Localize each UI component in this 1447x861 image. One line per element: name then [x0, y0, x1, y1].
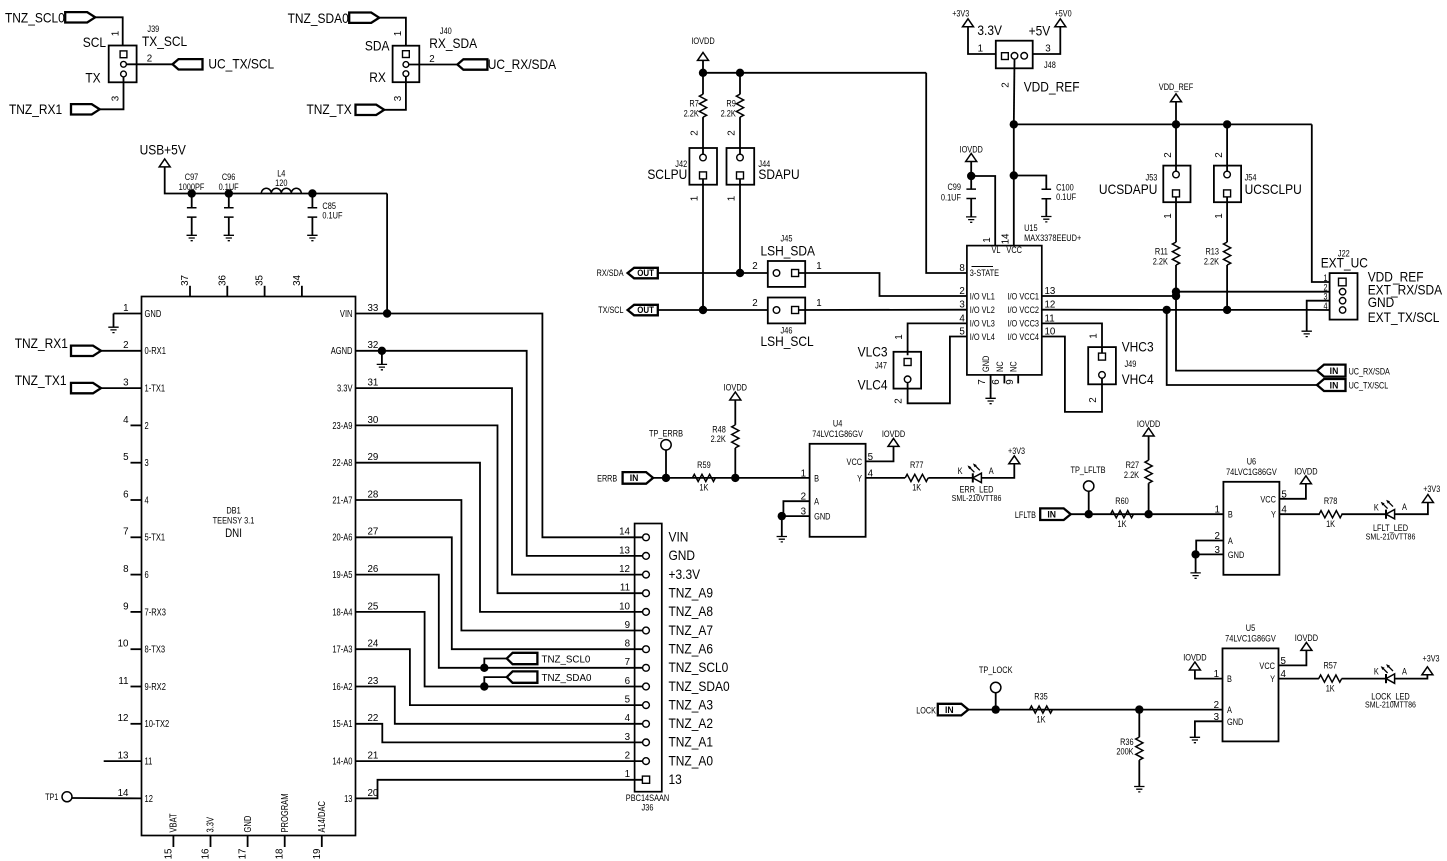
svg-text:OUT: OUT [637, 268, 655, 279]
svg-text:PBC14SAAN: PBC14SAAN [626, 793, 669, 803]
svg-text:VHC4: VHC4 [1122, 371, 1154, 387]
svg-text:R48: R48 [712, 425, 726, 435]
svg-text:120: 120 [275, 178, 288, 188]
svg-text:IN: IN [1330, 365, 1339, 376]
svg-text:GND: GND [242, 815, 253, 832]
svg-text:K: K [958, 466, 963, 476]
svg-text:TNZ_RX1: TNZ_RX1 [15, 335, 68, 351]
svg-text:B: B [1228, 510, 1233, 520]
svg-text:35: 35 [254, 275, 265, 286]
svg-text:2: 2 [752, 298, 758, 309]
svg-text:IN: IN [945, 704, 954, 715]
svg-text:TP_ERRB: TP_ERRB [649, 429, 683, 439]
svg-text:11: 11 [145, 755, 153, 766]
svg-text:TNZ_TX1: TNZ_TX1 [15, 372, 67, 388]
svg-text:0-RX1: 0-RX1 [145, 345, 166, 356]
svg-text:2: 2 [147, 53, 153, 64]
svg-text:2: 2 [752, 261, 758, 272]
svg-text:3: 3 [393, 95, 404, 101]
svg-text:1: 1 [123, 303, 129, 314]
svg-text:3.3V: 3.3V [205, 817, 216, 833]
svg-text:2: 2 [429, 54, 435, 65]
svg-text:R27: R27 [1126, 460, 1140, 470]
svg-text:TP_LOCK: TP_LOCK [979, 665, 1013, 675]
svg-text:0.1UF: 0.1UF [1056, 192, 1076, 202]
svg-text:13: 13 [619, 545, 630, 556]
svg-text:+3V3: +3V3 [1423, 654, 1440, 664]
svg-text:1K: 1K [1117, 519, 1126, 529]
svg-text:U15: U15 [1024, 223, 1038, 233]
svg-text:13: 13 [118, 750, 129, 761]
svg-text:4: 4 [625, 713, 631, 724]
svg-text:1: 1 [816, 261, 822, 272]
svg-text:1: 1 [1214, 213, 1225, 219]
svg-text:1: 1 [393, 30, 404, 36]
svg-text:GND: GND [1228, 550, 1244, 560]
svg-text:0.1UF: 0.1UF [941, 193, 961, 203]
svg-text:3-STATE: 3-STATE [970, 268, 1000, 278]
svg-text:1: 1 [625, 769, 631, 780]
svg-text:15-A1: 15-A1 [332, 718, 352, 729]
svg-text:+3V3: +3V3 [1423, 484, 1440, 494]
svg-text:16-A2: 16-A2 [332, 681, 352, 692]
svg-text:GND: GND [814, 512, 830, 522]
svg-text:UCSCLPU: UCSCLPU [1245, 181, 1302, 197]
svg-text:A: A [1228, 536, 1233, 546]
svg-text:1: 1 [726, 195, 737, 201]
svg-text:UC_RX/SDA: UC_RX/SDA [488, 56, 557, 72]
svg-text:TP1: TP1 [45, 792, 59, 802]
svg-text:RX: RX [369, 69, 386, 85]
svg-text:5: 5 [123, 452, 129, 463]
svg-text:3.3V: 3.3V [337, 382, 353, 393]
svg-text:2: 2 [1163, 152, 1174, 158]
svg-text:+5V: +5V [1029, 23, 1051, 39]
svg-text:9: 9 [123, 601, 129, 612]
svg-text:R35: R35 [1034, 692, 1048, 702]
svg-text:7: 7 [123, 526, 129, 537]
svg-text:VLC3: VLC3 [858, 344, 888, 360]
svg-text:74LVC1G86GV: 74LVC1G86GV [812, 429, 863, 439]
svg-text:TNZ_SCL0: TNZ_SCL0 [542, 654, 591, 665]
svg-text:12: 12 [619, 564, 630, 575]
svg-text:GND: GND [1227, 717, 1243, 727]
svg-text:R9: R9 [726, 99, 736, 109]
svg-text:U6: U6 [1247, 457, 1257, 467]
svg-text:5-TX1: 5-TX1 [145, 532, 166, 543]
svg-text:2: 2 [625, 750, 631, 761]
svg-text:+3V3: +3V3 [1008, 446, 1025, 456]
svg-text:36: 36 [217, 275, 228, 286]
svg-text:3.3V: 3.3V [977, 22, 1002, 38]
svg-text:7: 7 [977, 379, 988, 385]
svg-text:3: 3 [110, 95, 121, 101]
svg-text:TNZ_A9: TNZ_A9 [669, 585, 714, 601]
svg-text:R77: R77 [910, 460, 924, 470]
svg-text:K: K [1374, 503, 1379, 513]
svg-text:TNZ_A7: TNZ_A7 [669, 622, 714, 638]
svg-text:1: 1 [1163, 213, 1174, 219]
svg-text:TNZ_RX1: TNZ_RX1 [9, 101, 62, 117]
svg-text:4: 4 [123, 415, 129, 426]
svg-text:J36: J36 [642, 803, 654, 813]
svg-text:19-A5: 19-A5 [332, 569, 352, 580]
svg-text:TX_SCL: TX_SCL [142, 33, 187, 49]
svg-text:I/O VCC2: I/O VCC2 [1007, 305, 1039, 315]
svg-text:VCC: VCC [1006, 246, 1022, 256]
svg-text:VHC3: VHC3 [1122, 339, 1154, 355]
svg-text:2: 2 [689, 130, 700, 136]
svg-text:J49: J49 [1125, 360, 1137, 370]
svg-text:MAX3378EEUD+: MAX3378EEUD+ [1024, 234, 1081, 244]
svg-text:SDAPU: SDAPU [758, 166, 799, 182]
svg-text:10: 10 [118, 638, 129, 649]
svg-text:TNZ_SDA0: TNZ_SDA0 [542, 673, 592, 684]
svg-text:SML-210VTT86: SML-210VTT86 [952, 493, 1002, 503]
svg-text:RX_SDA: RX_SDA [429, 35, 477, 51]
svg-text:U5: U5 [1246, 623, 1256, 633]
svg-text:UC_TX/SCL: UC_TX/SCL [1349, 381, 1389, 391]
svg-text:9: 9 [1005, 379, 1016, 385]
svg-text:14-A0: 14-A0 [332, 755, 352, 766]
svg-text:2: 2 [123, 340, 129, 351]
svg-text:32: 32 [368, 340, 379, 351]
svg-text:SCLPU: SCLPU [647, 166, 687, 182]
svg-text:I/O VCC4: I/O VCC4 [1007, 332, 1039, 342]
svg-text:TNZ_SDA0: TNZ_SDA0 [288, 10, 349, 26]
svg-text:R60: R60 [1115, 496, 1129, 506]
svg-text:IOVDD: IOVDD [1295, 633, 1318, 643]
svg-text:1: 1 [110, 30, 121, 36]
svg-text:33: 33 [368, 303, 379, 314]
svg-text:C99: C99 [947, 182, 961, 192]
svg-text:3: 3 [123, 377, 129, 388]
svg-text:IN: IN [630, 473, 639, 484]
svg-text:OUT: OUT [637, 305, 655, 316]
svg-text:31: 31 [368, 377, 379, 388]
svg-text:AGND: AGND [331, 345, 353, 356]
svg-text:6: 6 [625, 676, 631, 687]
svg-text:34: 34 [292, 275, 303, 286]
svg-text:10: 10 [619, 601, 630, 612]
svg-text:2.2K: 2.2K [1124, 470, 1140, 480]
svg-text:I/O VL2: I/O VL2 [970, 305, 995, 315]
svg-text:GND: GND [1368, 294, 1395, 310]
svg-text:IOVDD: IOVDD [1294, 467, 1317, 477]
svg-text:LSH_SCL: LSH_SCL [761, 333, 814, 349]
svg-text:7-RX3: 7-RX3 [145, 606, 166, 617]
svg-text:K: K [1374, 667, 1379, 677]
svg-text:TNZ_A0: TNZ_A0 [669, 753, 714, 769]
svg-text:ERRB: ERRB [597, 474, 617, 484]
svg-text:TNZ_A3: TNZ_A3 [669, 697, 714, 713]
svg-text:17: 17 [237, 848, 248, 859]
svg-text:IOVDD: IOVDD [882, 429, 905, 439]
svg-text:TP_LFLTB: TP_LFLTB [1070, 465, 1106, 475]
svg-text:B: B [814, 474, 819, 484]
svg-text:2.2K: 2.2K [711, 435, 727, 445]
svg-text:R57: R57 [1323, 661, 1337, 671]
svg-text:7: 7 [625, 657, 631, 668]
svg-text:25: 25 [368, 601, 379, 612]
svg-text:3: 3 [145, 457, 149, 468]
svg-text:VL: VL [991, 246, 1000, 256]
svg-text:A: A [989, 466, 994, 476]
svg-text:18: 18 [274, 848, 285, 859]
svg-text:R11: R11 [1155, 247, 1168, 257]
svg-text:TNZ_SCL0: TNZ_SCL0 [5, 10, 65, 26]
svg-text:12: 12 [118, 713, 129, 724]
svg-text:74LVC1G86GV: 74LVC1G86GV [1226, 467, 1277, 477]
svg-text:TX: TX [85, 70, 101, 86]
svg-text:12: 12 [145, 793, 153, 804]
svg-text:J48: J48 [1044, 60, 1056, 70]
svg-text:18-A4: 18-A4 [332, 606, 352, 617]
svg-text:VDD_REF: VDD_REF [1159, 82, 1193, 92]
svg-text:I/O VCC1: I/O VCC1 [1007, 292, 1039, 302]
svg-text:6: 6 [123, 489, 129, 500]
svg-text:I/O VL1: I/O VL1 [970, 292, 995, 302]
svg-text:A: A [1402, 503, 1407, 513]
svg-text:A: A [1227, 705, 1232, 715]
svg-text:11: 11 [620, 582, 631, 593]
svg-text:23-A9: 23-A9 [332, 420, 352, 431]
svg-text:TNZ_A6: TNZ_A6 [669, 641, 714, 657]
svg-text:RX/SDA: RX/SDA [597, 269, 624, 279]
svg-text:2: 2 [959, 286, 965, 297]
svg-text:4: 4 [1323, 301, 1327, 311]
svg-text:TNZ_TX: TNZ_TX [307, 101, 353, 117]
svg-text:19: 19 [312, 848, 323, 859]
svg-text:+3.3V: +3.3V [669, 566, 701, 582]
svg-text:R7: R7 [689, 99, 699, 109]
svg-text:GND: GND [669, 547, 696, 563]
svg-text:LOCK: LOCK [916, 706, 936, 716]
svg-text:23: 23 [368, 676, 379, 687]
svg-text:1K: 1K [1326, 684, 1335, 694]
svg-text:21: 21 [368, 750, 379, 761]
svg-text:9-RX2: 9-RX2 [145, 681, 166, 692]
svg-text:DNI: DNI [225, 527, 242, 540]
svg-text:Y: Y [1271, 510, 1276, 520]
svg-text:VIN: VIN [669, 529, 689, 545]
svg-text:VCC: VCC [1260, 495, 1276, 505]
svg-text:A: A [1402, 667, 1407, 677]
svg-text:15: 15 [163, 848, 174, 859]
svg-text:1: 1 [689, 195, 700, 201]
svg-text:4: 4 [145, 494, 149, 505]
svg-text:TNZ_A8: TNZ_A8 [669, 603, 714, 619]
svg-text:VBAT: VBAT [168, 813, 179, 833]
svg-text:SML-210VTT86: SML-210VTT86 [1366, 532, 1416, 542]
svg-text:14: 14 [118, 788, 129, 799]
svg-text:TNZ_A2: TNZ_A2 [669, 715, 714, 731]
svg-text:1: 1 [1323, 273, 1327, 283]
svg-text:I/O VL3: I/O VL3 [970, 319, 995, 329]
svg-text:21-A7: 21-A7 [332, 494, 352, 505]
svg-text:9: 9 [625, 620, 631, 631]
svg-text:13: 13 [344, 793, 352, 804]
svg-text:2: 2 [726, 130, 737, 136]
svg-text:30: 30 [368, 415, 379, 426]
svg-text:8-TX3: 8-TX3 [145, 644, 166, 655]
svg-text:USB+5V: USB+5V [140, 142, 187, 158]
svg-text:U4: U4 [833, 419, 843, 429]
svg-text:1: 1 [978, 43, 984, 54]
svg-text:2: 2 [145, 420, 149, 431]
svg-text:2: 2 [1214, 152, 1225, 158]
svg-text:TEENSY 3.1: TEENSY 3.1 [213, 516, 255, 526]
svg-text:SML-210MTT86: SML-210MTT86 [1365, 700, 1416, 710]
svg-text:14: 14 [619, 526, 630, 537]
svg-text:8: 8 [959, 263, 965, 274]
svg-text:24: 24 [368, 638, 379, 649]
svg-text:74LVC1G86GV: 74LVC1G86GV [1225, 634, 1276, 644]
svg-text:3: 3 [959, 299, 965, 310]
svg-text:0.1UF: 0.1UF [219, 183, 239, 193]
svg-text:UCSDAPU: UCSDAPU [1099, 181, 1157, 197]
svg-text:2: 2 [1000, 82, 1011, 88]
svg-text:22: 22 [368, 713, 379, 724]
svg-text:IOVDD: IOVDD [1183, 653, 1206, 663]
svg-text:TNZ_SCL0: TNZ_SCL0 [669, 659, 729, 675]
svg-text:I/O VL4: I/O VL4 [970, 332, 995, 342]
svg-text:1K: 1K [1326, 519, 1335, 529]
svg-text:LFLTB: LFLTB [1015, 510, 1036, 520]
svg-text:IOVDD: IOVDD [691, 36, 714, 46]
svg-text:8: 8 [123, 564, 129, 575]
svg-text:PROGRAM: PROGRAM [279, 794, 290, 833]
svg-text:11: 11 [118, 676, 129, 687]
svg-text:1: 1 [894, 334, 905, 340]
svg-text:+3V3: +3V3 [952, 9, 969, 19]
svg-text:2.2K: 2.2K [1204, 257, 1220, 267]
svg-text:EXT_TX/SCL: EXT_TX/SCL [1368, 309, 1440, 325]
svg-text:3: 3 [625, 732, 631, 743]
svg-text:29: 29 [368, 452, 379, 463]
svg-text:C96: C96 [222, 173, 236, 183]
svg-text:IN: IN [1330, 380, 1339, 391]
svg-text:IN: IN [1047, 509, 1056, 520]
svg-text:2: 2 [893, 398, 904, 404]
svg-text:8: 8 [625, 638, 631, 649]
svg-text:1: 1 [982, 237, 993, 243]
svg-text:C85: C85 [322, 201, 336, 211]
svg-text:200K: 200K [1116, 747, 1134, 757]
svg-text:TX/SCL: TX/SCL [598, 306, 624, 316]
svg-text:VLC4: VLC4 [858, 377, 888, 393]
svg-text:37: 37 [180, 275, 191, 286]
svg-text:2: 2 [1088, 397, 1099, 403]
svg-text:2.2K: 2.2K [684, 109, 700, 119]
svg-text:L4: L4 [277, 169, 286, 179]
svg-text:2.2K: 2.2K [721, 109, 737, 119]
svg-text:6: 6 [145, 569, 149, 580]
svg-text:22-A8: 22-A8 [332, 457, 352, 468]
svg-text:NC: NC [1009, 361, 1019, 372]
svg-text:Y: Y [1270, 674, 1275, 684]
svg-text:VIN: VIN [340, 308, 353, 319]
svg-text:R78: R78 [1324, 496, 1338, 506]
svg-text:14: 14 [1000, 233, 1011, 244]
svg-text:C97: C97 [185, 173, 199, 183]
svg-text:1K: 1K [1036, 715, 1045, 725]
svg-text:UC_RX/SDA: UC_RX/SDA [1349, 367, 1391, 377]
svg-text:VCC: VCC [1259, 661, 1275, 671]
svg-text:1: 1 [816, 298, 822, 309]
svg-text:3: 3 [1045, 43, 1051, 54]
svg-text:R13: R13 [1205, 247, 1219, 257]
svg-text:NC: NC [995, 361, 1005, 372]
svg-text:TNZ_A1: TNZ_A1 [669, 734, 714, 750]
svg-text:Y: Y [857, 474, 862, 484]
svg-text:1K: 1K [912, 483, 921, 493]
svg-text:6: 6 [991, 379, 1002, 385]
svg-text:16: 16 [200, 848, 211, 859]
svg-text:GND: GND [981, 356, 991, 372]
svg-text:SDA: SDA [365, 38, 390, 54]
svg-text:1000PF: 1000PF [179, 183, 205, 193]
svg-text:R36: R36 [1120, 737, 1134, 747]
svg-text:B: B [1227, 674, 1232, 684]
svg-text:SCL: SCL [83, 34, 106, 50]
svg-text:17-A3: 17-A3 [332, 644, 352, 655]
svg-text:10-TX2: 10-TX2 [145, 718, 170, 729]
svg-text:1K: 1K [699, 483, 708, 493]
svg-text:C100: C100 [1056, 183, 1074, 193]
svg-text:EXT_UC: EXT_UC [1321, 255, 1368, 271]
svg-text:13: 13 [669, 771, 682, 787]
svg-text:R59: R59 [697, 460, 711, 470]
svg-text:1: 1 [1088, 333, 1099, 339]
svg-text:LSH_SDA: LSH_SDA [761, 243, 816, 259]
svg-text:1-TX1: 1-TX1 [145, 382, 166, 393]
svg-text:TNZ_SDA0: TNZ_SDA0 [669, 678, 730, 694]
svg-text:5: 5 [625, 694, 631, 705]
svg-text:I/O VCC3: I/O VCC3 [1007, 319, 1039, 329]
svg-text:VCC: VCC [847, 457, 863, 467]
svg-text:+5V0: +5V0 [1055, 9, 1072, 19]
svg-text:GND: GND [145, 308, 162, 319]
svg-text:20-A6: 20-A6 [332, 532, 352, 543]
svg-text:A: A [814, 497, 819, 507]
svg-text:2.2K: 2.2K [1153, 257, 1169, 267]
svg-text:DB1: DB1 [226, 506, 241, 516]
svg-text:0.1UF: 0.1UF [322, 211, 342, 221]
svg-text:27: 27 [368, 526, 379, 537]
svg-text:VDD_REF: VDD_REF [1024, 79, 1080, 95]
svg-text:J47: J47 [875, 361, 887, 371]
svg-text:26: 26 [368, 564, 379, 575]
svg-text:28: 28 [368, 489, 379, 500]
svg-text:UC_TX/SCL: UC_TX/SCL [208, 56, 274, 72]
svg-text:A14/DAC: A14/DAC [316, 801, 327, 833]
